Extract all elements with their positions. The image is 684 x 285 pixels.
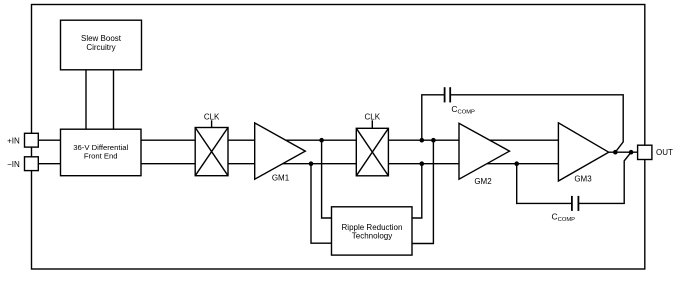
wire: slew boost left leg bbox=[85, 70, 87, 129]
svg-text:Slew Boost: Slew Boost bbox=[81, 34, 122, 43]
wire: lower signal rail bbox=[141, 163, 586, 165]
svg-text:Front End: Front End bbox=[84, 152, 118, 161]
amplifier GM3 bbox=[558, 123, 608, 181]
wire: slew boost right leg bbox=[113, 70, 115, 129]
pin +IN bbox=[25, 133, 39, 147]
junction dot: lower rail at ripple tap bbox=[420, 161, 425, 166]
wire: GM1 upper output down to ripple box bbox=[322, 140, 332, 218]
svg-text:Circuitry: Circuitry bbox=[86, 43, 115, 52]
wire: upper rail down to ripple box bbox=[412, 140, 433, 243]
junction dot: GM1 upper output bbox=[319, 138, 324, 143]
svg-text:CLK: CLK bbox=[365, 113, 381, 122]
wire: bottom feedback from output node down bbox=[579, 152, 631, 203]
clk tick for chopper S2 bbox=[371, 120, 373, 128]
junction dot: output node right bbox=[629, 150, 634, 155]
svg-text:CCOMP: CCOMP bbox=[451, 104, 475, 116]
box: ripple reduction technology bbox=[332, 207, 413, 255]
junction dot: output node left bbox=[613, 150, 618, 155]
chopper S2 (CLK box with X) bbox=[356, 128, 388, 176]
capacitor C2 COMP plates bbox=[577, 196, 579, 211]
pin OUT bbox=[638, 145, 652, 159]
junction dot: GM1 lower output bbox=[309, 161, 314, 166]
wire: top feedback right segment to output node bbox=[450, 95, 623, 152]
svg-text:CLK: CLK bbox=[204, 113, 220, 122]
svg-text:CCOMP: CCOMP bbox=[552, 212, 576, 224]
wire: upper signal rail bbox=[141, 139, 585, 141]
box U1: 36-V differential front end bbox=[61, 129, 142, 176]
junction dot: lower rail at bottom feedback tap bbox=[514, 161, 519, 166]
wire: bottom feedback left segment up to lower rail bbox=[517, 164, 572, 204]
amplifier GM2 bbox=[459, 123, 510, 179]
clk tick for chopper S1 bbox=[211, 120, 213, 127]
wire: top feedback left segment to capacitor C1 bbox=[422, 95, 445, 140]
wire: -IN to front end bbox=[38, 163, 60, 165]
svg-text:Technology: Technology bbox=[352, 232, 392, 241]
wire: +IN to front end bbox=[38, 139, 60, 141]
svg-text:OUT: OUT bbox=[656, 148, 673, 157]
svg-text:Ripple Reduction: Ripple Reduction bbox=[342, 223, 403, 232]
capacitor C1 COMP plates bbox=[444, 87, 446, 102]
pin -IN bbox=[25, 157, 39, 171]
box: slew boost circuitry bbox=[61, 20, 142, 70]
wire: GM3 output to OUT pin bbox=[609, 151, 638, 153]
junction dot: upper rail at feedback tap bbox=[420, 138, 425, 143]
svg-text:GM1: GM1 bbox=[272, 174, 290, 183]
svg-text:−IN: −IN bbox=[7, 160, 20, 169]
svg-text:GM2: GM2 bbox=[474, 177, 492, 186]
wire: chopper S2 lower rail down to ripple box bbox=[412, 164, 422, 218]
svg-text:GM3: GM3 bbox=[574, 175, 592, 184]
svg-text:+IN: +IN bbox=[7, 136, 20, 145]
chopper S1 (CLK box with X) bbox=[195, 128, 228, 176]
junction dot: upper rail at ripple tap bbox=[431, 138, 436, 143]
wire: GM1 lower output down to ripple box bbox=[311, 164, 332, 244]
amplifier GM1 bbox=[255, 123, 306, 179]
